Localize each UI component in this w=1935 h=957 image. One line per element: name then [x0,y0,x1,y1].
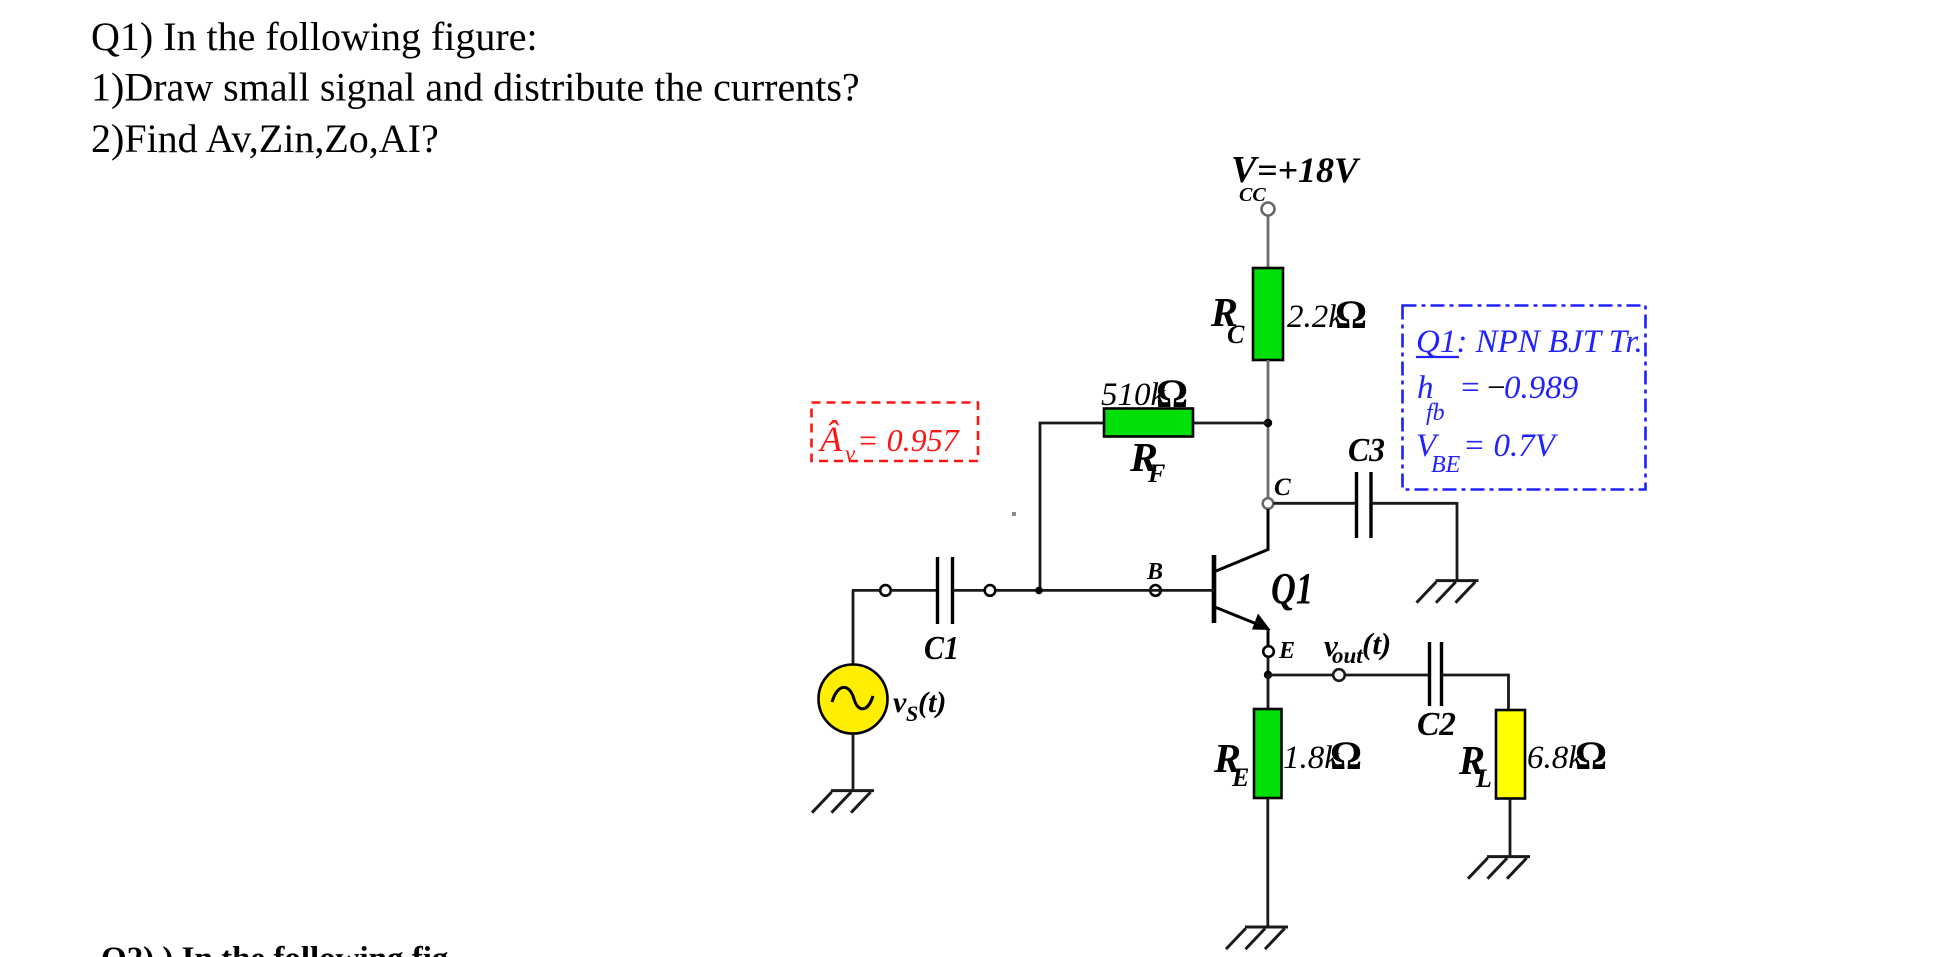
label RC [1210,289,1245,349]
wire junction to vout terminal [1268,674,1333,677]
svg-text:Â: Â [818,419,843,459]
resistor RL [1496,710,1525,799]
input junction [1035,587,1043,595]
emitter junction [1264,671,1272,679]
svg-text:E: E [1231,763,1249,792]
resistor RC [1253,268,1283,360]
base wire [1161,589,1214,592]
svg-text:BE: BE [1431,452,1461,478]
svg-text:Ω: Ω [1156,371,1188,416]
svg-text:Ω: Ω [1330,733,1362,778]
transistor Q1 [1214,509,1268,647]
ground (RE) [1226,927,1288,949]
gain annotation text [818,419,961,466]
wire RF right to collector column [1193,422,1268,425]
parameter text line 3 [1416,428,1559,478]
svg-text:C1: C1 [924,630,959,667]
wire source column [852,590,855,665]
svg-text:C: C [1227,320,1245,349]
gain annotation box [812,403,979,462]
wire C1 to terminal [953,589,984,592]
svg-text:2)Find Av,Zin,Zo,AI?: 2)Find Av,Zin,Zo,AI? [91,116,439,161]
input wire from source [852,589,880,592]
wire RE to ground [1266,798,1269,927]
parameter text line 1 [1416,324,1643,360]
wire vout to C2 [1345,674,1429,677]
value 1.8kOhm [1283,733,1362,778]
svg-text:Q1: NPN BJT Tr.: Q1: NPN BJT Tr. [1416,324,1643,360]
svg-text:L: L [1475,764,1492,793]
svg-text:Q2) ) In the following fig: Q2) ) In the following fig [101,941,449,957]
node C terminal [1263,498,1274,509]
underline Q1 [1416,356,1459,358]
label RL [1458,737,1492,793]
wire source to ground [852,734,855,792]
Vcc terminal [1262,203,1275,216]
svg-text:B: B [1146,559,1163,585]
resistor RE [1254,709,1282,798]
parameter text line 2 [1417,370,1578,426]
value 2.2kOhm [1287,292,1367,337]
Q1 emitter arrowhead [1252,614,1271,631]
wire terminal to C1 [891,589,937,592]
svg-text:= 0.957: = 0.957 [857,422,961,458]
svg-text:v: v [845,441,856,466]
vout terminal [1333,669,1345,681]
svg-text:=: = [1459,370,1481,406]
wire RF left + down to input node [1040,423,1104,591]
wire C3 to ground [1372,503,1458,580]
label vout(t) [1324,626,1391,668]
svg-text:Ω: Ω [1335,292,1367,337]
svg-text:Q1) In the following figure:: Q1) In the following figure: [91,14,538,59]
svg-text:out: out [1332,643,1363,668]
svg-text:C3: C3 [1348,432,1385,469]
svg-text:E: E [1278,638,1295,664]
transistor parameter box [1403,306,1646,490]
wire E to junction [1267,657,1270,675]
svg-text:(t): (t) [918,686,946,719]
svg-text:0.989: 0.989 [1504,370,1578,406]
node E terminal [1263,646,1274,657]
svg-text:1)Draw small signal and distri: 1)Draw small signal and distribute the c… [91,65,860,110]
source vs [819,665,888,734]
label vs(t) [893,686,946,726]
ground (RL) [1468,857,1530,879]
svg-text:= 0.7V: = 0.7V [1463,428,1559,464]
wire C2 to RL [1442,675,1509,710]
label RF [1129,434,1165,488]
svg-text:v: v [893,686,907,719]
wire to base node [996,589,1161,592]
svg-text:fb: fb [1426,400,1445,426]
sine symbol [832,687,873,708]
wire node C to C3 [1274,502,1357,505]
svg-text:C2: C2 [1417,706,1456,743]
label RE [1213,735,1249,792]
wire Vcc to RC [1267,216,1270,270]
svg-text:F: F [1147,459,1165,488]
svg-text:S: S [906,701,918,726]
ground (source) [812,791,874,813]
value 510kOhm [1101,371,1188,416]
input terminal right [985,585,996,596]
svg-text:(t): (t) [1362,626,1391,661]
svg-text:Q1: Q1 [1271,564,1313,613]
svg-text:Ω: Ω [1575,733,1607,778]
capacitor C1 [938,557,953,624]
wire RL to ground [1509,799,1512,858]
svg-text:C: C [1274,474,1291,501]
input terminal left [880,585,891,596]
Vcc label [1231,149,1361,206]
svg-text:=+18V: =+18V [1257,150,1361,190]
junction RF/collector [1264,419,1272,427]
wire junction to RE [1267,675,1270,710]
stray mark [1012,512,1016,516]
node B terminal [1150,585,1161,596]
ground (C3) [1417,581,1479,603]
capacitor C2 [1430,642,1442,706]
capacitor C3 [1357,472,1372,538]
resistor RF [1104,409,1193,437]
value 6.8kOhm [1527,733,1607,778]
wire RC to node C [1267,360,1270,499]
